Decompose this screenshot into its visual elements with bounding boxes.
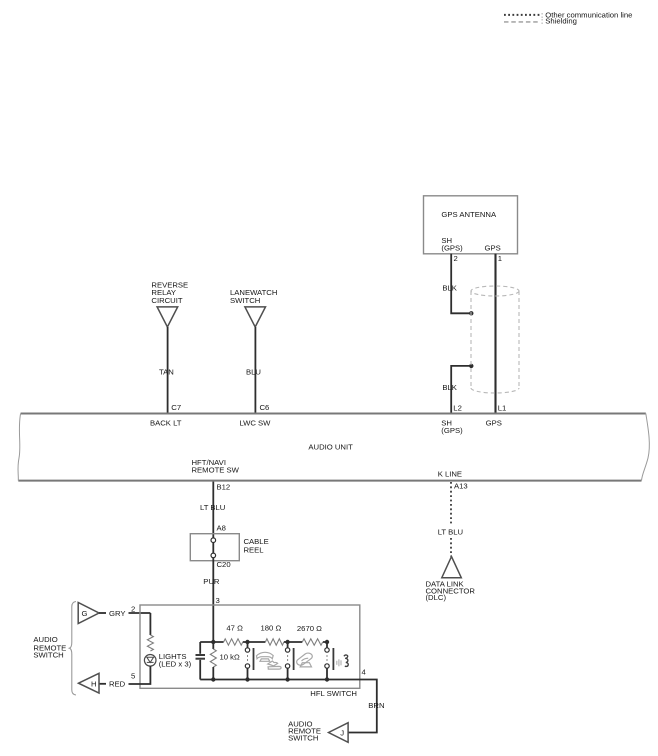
junction: shield top tap — [469, 311, 473, 315]
LED lights symbol — [144, 655, 156, 667]
svg-text:2: 2 — [454, 254, 458, 263]
svg-text:SWITCH: SWITCH — [230, 296, 260, 305]
junction dots on top bus — [211, 640, 215, 644]
svg-text:BLK: BLK — [442, 383, 457, 392]
wire: lights branch lower to pin 5 — [129, 666, 151, 684]
svg-text:GRY: GRY — [109, 609, 126, 618]
capacitor branch wire upper — [199, 642, 201, 654]
svg-text:BRN: BRN — [368, 701, 384, 710]
svg-text:REEL: REEL — [244, 546, 265, 555]
data link connector triangle — [442, 557, 462, 578]
wire: G stub — [99, 612, 106, 614]
wire: HFL bottom bus out pin 4 — [200, 680, 377, 733]
wire: B12 down to cable reel, LT BLU — [212, 482, 214, 540]
svg-text:HFL SWITCH: HFL SWITCH — [310, 689, 357, 698]
icon: pick up handset — [257, 652, 282, 669]
svg-text:G: G — [82, 609, 88, 618]
GPS antenna box — [424, 196, 518, 254]
resistor (lights, unlabeled) — [147, 635, 153, 651]
audio unit band bottom edge — [18, 480, 641, 482]
svg-text:K LINE: K LINE — [438, 470, 462, 479]
legend dotted sample: other communication line — [504, 14, 540, 16]
svg-text:(LED x 3): (LED x 3) — [159, 659, 192, 668]
junction: shield bottom tap — [469, 364, 473, 368]
svg-text:4: 4 — [362, 668, 367, 677]
svg-text:2670 Ω: 2670 Ω — [297, 624, 322, 633]
wire: SH(GPS) pin2 down to shield, BLK — [451, 254, 471, 313]
junction dots on bottom bus — [211, 677, 215, 681]
svg-text:TAN: TAN — [159, 368, 174, 377]
svg-text:: Shielding: : Shielding — [541, 17, 577, 26]
svg-text:(DLC): (DLC) — [426, 593, 447, 602]
capacitor — [196, 655, 206, 659]
resistor 10 kohm — [210, 649, 216, 667]
audio unit band left torn edge — [18, 414, 21, 481]
wire: K line dotted (other communication line), upper part — [450, 482, 452, 524]
svg-text:BLK: BLK — [442, 284, 457, 293]
svg-text:C7: C7 — [171, 403, 181, 412]
wire: 10k to bottom bus — [212, 667, 214, 680]
svg-text:C20: C20 — [217, 560, 231, 569]
svg-text:SWITCH: SWITCH — [33, 650, 63, 659]
wire: BLU to C6 — [254, 327, 256, 414]
wire: lights branch upper — [149, 613, 151, 635]
cable reel contact upper — [211, 538, 216, 543]
svg-text:(GPS): (GPS) — [441, 244, 463, 253]
wire: shield bottom tap to L2, BLK — [451, 366, 471, 414]
svg-text:GPS: GPS — [486, 418, 502, 427]
brace — [70, 602, 77, 696]
wire: GPS pin1 coax core down to L1 — [494, 254, 496, 414]
audio unit band right torn edge — [642, 414, 650, 481]
svg-text:L2: L2 — [453, 404, 462, 413]
svg-text:C6: C6 — [260, 403, 270, 412]
wire: HFL top bus — [200, 641, 327, 643]
icon: hang up handset — [297, 653, 313, 667]
svg-text:5: 5 — [131, 672, 135, 681]
svg-text:47 Ω: 47 Ω — [226, 624, 243, 633]
wire: K line dotted, lower part — [450, 538, 452, 557]
svg-text:PUR: PUR — [203, 577, 220, 586]
svg-text:A13: A13 — [454, 481, 468, 490]
lanewatch connector triangle — [245, 307, 266, 327]
connector G triangle — [78, 603, 99, 624]
svg-text:RED: RED — [109, 680, 126, 689]
switch 3 (talk) — [325, 642, 334, 680]
svg-text:LT BLU: LT BLU — [200, 503, 225, 512]
svg-text:1: 1 — [498, 254, 502, 263]
svg-text:3: 3 — [216, 596, 220, 605]
wire: TAN to C7 — [167, 327, 169, 414]
svg-text:GPS: GPS — [485, 244, 501, 253]
svg-text:B12: B12 — [217, 482, 231, 491]
svg-text:SWITCH: SWITCH — [288, 734, 318, 743]
resistor 2670 ohm — [302, 639, 322, 645]
svg-text:J: J — [340, 729, 344, 738]
switch 1 (pick up) — [245, 642, 253, 680]
wire: pin3 branch through 10k — [212, 642, 214, 649]
svg-text:LT BLU: LT BLU — [438, 528, 463, 537]
svg-text:BACK LT: BACK LT — [150, 418, 182, 427]
legend dashed sample: shielding — [504, 21, 540, 23]
wire: between cable reel contacts — [212, 543, 214, 554]
cable reel box — [190, 534, 239, 561]
svg-text:BLU: BLU — [246, 368, 261, 377]
svg-text:REMOTE SW: REMOTE SW — [192, 466, 240, 475]
svg-text:AUDIO UNIT: AUDIO UNIT — [308, 443, 353, 452]
connector J triangle — [329, 723, 349, 743]
switch 2 (hang up) — [285, 642, 293, 680]
svg-text:GPS ANTENNA: GPS ANTENNA — [441, 210, 497, 219]
svg-text:(GPS): (GPS) — [441, 426, 463, 435]
audio remote switch module box — [140, 605, 360, 688]
svg-text:180 Ω: 180 Ω — [261, 624, 282, 633]
cable reel contact lower — [211, 553, 216, 558]
capacitor branch wire lower — [199, 660, 201, 680]
svg-text:L1: L1 — [498, 404, 507, 413]
svg-text:A8: A8 — [217, 524, 226, 533]
resistor 180 ohm — [265, 639, 284, 645]
shielding cylinder (dashed) — [471, 286, 519, 393]
wire: C20 down to pin 3, PUR — [212, 558, 214, 642]
svg-text:2: 2 — [131, 604, 135, 613]
svg-text:LWC SW: LWC SW — [239, 418, 271, 427]
wire: H stub — [99, 683, 106, 685]
svg-text:CIRCUIT: CIRCUIT — [151, 296, 182, 305]
icon: talk / voice — [337, 655, 348, 666]
connector H triangle — [79, 673, 100, 693]
svg-text:H: H — [91, 679, 97, 688]
resistor 47 ohm — [224, 639, 243, 645]
svg-text:10 kΩ: 10 kΩ — [220, 653, 241, 662]
wire: GRY into pin 2 — [129, 612, 151, 614]
reverse relay connector triangle — [157, 307, 178, 327]
audio unit band top edge — [21, 413, 646, 415]
